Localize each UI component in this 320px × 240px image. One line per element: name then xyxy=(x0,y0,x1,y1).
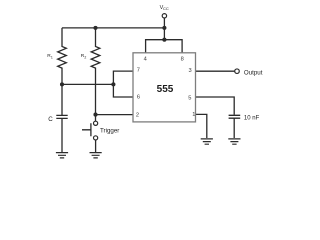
node junction trigger/pin2 xyxy=(93,113,97,117)
capacitor 10nF xyxy=(229,115,241,138)
switch Trigger contact bottom xyxy=(94,136,98,140)
wire pins 4-8 bracket xyxy=(146,40,183,53)
wire Vcc rail top xyxy=(62,27,164,29)
terminal Vcc xyxy=(162,14,166,18)
wire pin 5 to 10nF xyxy=(196,97,235,115)
wire node A to pin 7 xyxy=(113,71,133,84)
ground pin 1 xyxy=(201,139,213,144)
node: junction R2 top xyxy=(93,26,97,30)
node: junction bracket top xyxy=(162,38,166,42)
wire node A horizontal xyxy=(62,83,113,85)
op/IC 555 box U1 xyxy=(133,53,196,122)
node A junction (R1/C) xyxy=(60,82,64,86)
resistor R1 xyxy=(58,28,67,85)
svg-text:C: C xyxy=(48,116,53,123)
svg-text:8: 8 xyxy=(181,57,184,63)
ground 10nF xyxy=(228,139,240,144)
svg-text:CC: CC xyxy=(163,6,169,11)
wire pin 1 to ground xyxy=(196,114,207,138)
wire trigger node to pin 2 xyxy=(96,114,134,116)
svg-text:1: 1 xyxy=(51,55,53,59)
node junction pins 6-7 xyxy=(111,82,115,86)
wire pin 3 to output xyxy=(196,70,235,72)
ground under Trigger xyxy=(90,153,102,158)
resistor R2 xyxy=(91,28,100,115)
node: junction Vcc rail xyxy=(162,26,166,30)
svg-text:2: 2 xyxy=(136,112,139,118)
svg-text:Output: Output xyxy=(244,69,263,76)
wire Vcc terminal drop xyxy=(163,18,165,40)
switch Trigger xyxy=(82,115,96,152)
capacitor C xyxy=(56,84,67,152)
svg-text:7: 7 xyxy=(137,67,140,73)
ground under C xyxy=(56,153,68,158)
svg-text:Trigger: Trigger xyxy=(100,128,119,135)
svg-text:4: 4 xyxy=(144,57,147,63)
terminal Output xyxy=(235,69,240,74)
svg-text:3: 3 xyxy=(189,68,192,74)
svg-text:5: 5 xyxy=(188,95,191,101)
svg-text:555: 555 xyxy=(157,84,174,95)
svg-text:10 nF: 10 nF xyxy=(244,116,260,122)
switch Trigger contact top xyxy=(94,121,98,125)
svg-text:6: 6 xyxy=(137,94,140,100)
svg-text:1: 1 xyxy=(192,112,195,118)
svg-text:2: 2 xyxy=(84,55,86,59)
wire node A to pin 6 xyxy=(113,84,133,97)
